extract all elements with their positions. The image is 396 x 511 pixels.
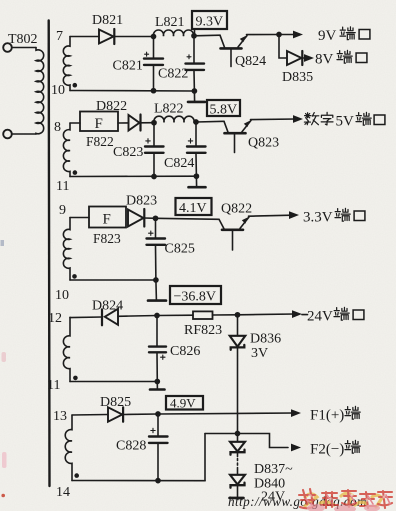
svg-text:T802: T802	[8, 32, 38, 47]
secondary winding W2	[63, 123, 70, 177]
voltage box 9.3V	[192, 11, 227, 33]
label 3.3V port	[303, 208, 365, 225]
wire	[70, 122, 80, 124]
wire	[12, 47, 36, 49]
capacitor C822	[186, 36, 205, 91]
fuse F822	[80, 112, 118, 133]
wire	[114, 36, 153, 38]
speck pink left edge	[2, 352, 7, 362]
svg-text:7: 7	[56, 29, 63, 44]
svg-text:F: F	[103, 212, 111, 228]
capacitor C824	[187, 122, 206, 176]
node C823 bottom	[152, 174, 156, 178]
svg-text:5.8V: 5.8V	[210, 103, 238, 118]
node C825 bottom	[154, 278, 158, 282]
wire 24V arrow	[238, 310, 308, 318]
secondary winding W3	[63, 218, 70, 281]
node J1b	[192, 34, 196, 38]
diode D822	[129, 115, 141, 131]
wire bottom rail S5	[72, 480, 205, 482]
fuse F823	[89, 207, 126, 228]
transistor Q823	[224, 120, 251, 152]
node C821 bottom	[151, 89, 155, 93]
node J5b	[235, 431, 239, 435]
primary terminal top	[3, 43, 12, 52]
ground G2	[189, 176, 206, 187]
capacitor C821	[144, 37, 163, 91]
wire bottom rail S2	[70, 175, 196, 177]
phase dot W1	[73, 83, 78, 88]
capacitor C826	[149, 316, 166, 382]
svg-text:12: 12	[48, 311, 62, 326]
transformer core	[48, 21, 51, 487]
node 9V	[277, 32, 281, 36]
dashed wire	[237, 459, 239, 468]
node C824 bottom	[194, 174, 198, 178]
svg-text:D837~: D837~	[254, 462, 293, 477]
svg-text:C822: C822	[158, 67, 188, 82]
svg-text:C823: C823	[113, 145, 143, 160]
wire	[118, 122, 129, 124]
primary winding	[36, 48, 44, 135]
zener D837	[230, 434, 245, 457]
transistor Q824	[220, 35, 247, 66]
label 9V port	[318, 27, 370, 44]
wire	[70, 36, 99, 38]
wire bottom rail S4	[70, 381, 157, 383]
node C822 bottom	[192, 89, 196, 93]
svg-text:Q822: Q822	[221, 202, 252, 217]
svg-text:10: 10	[51, 83, 65, 98]
secondary winding W1	[63, 37, 70, 91]
ground G3	[148, 280, 166, 301]
wire to D835	[279, 35, 287, 59]
wire F2 step	[238, 434, 289, 448]
diode D825	[108, 407, 123, 421]
svg-text:9V: 9V	[318, 28, 337, 44]
svg-text:C825: C825	[165, 242, 195, 257]
svg-text:4.9V: 4.9V	[170, 396, 196, 411]
wire	[70, 316, 102, 319]
voltage box 4.1V	[176, 198, 212, 216]
ground G5	[230, 497, 244, 500]
svg-text:9.3V: 9.3V	[196, 15, 224, 30]
inductor L821	[153, 30, 193, 36]
label F1(+) port	[310, 406, 360, 423]
ground G4	[150, 382, 165, 390]
wire F1 arrow	[158, 409, 301, 417]
wire riser	[204, 434, 206, 481]
speck blue-gray left edge	[1, 240, 5, 246]
secondary winding W4	[63, 317, 70, 381]
svg-text:3.3V: 3.3V	[303, 210, 333, 226]
phase dot W4	[73, 376, 78, 381]
node J2a	[152, 121, 156, 125]
svg-text:D824: D824	[92, 299, 123, 314]
svg-text:L822: L822	[154, 102, 184, 117]
svg-text:−36.8V: −36.8V	[174, 290, 217, 305]
svg-text:Q824: Q824	[235, 54, 266, 69]
zener D840	[230, 468, 245, 498]
wire 8V arrow	[302, 54, 314, 62]
svg-text:5V: 5V	[336, 114, 355, 130]
voltage box -36.8V	[170, 286, 221, 305]
wire 9V arrow	[279, 31, 303, 39]
wire to D837 node	[205, 433, 238, 435]
ground G1	[188, 91, 205, 102]
label F2(-) port	[310, 440, 360, 457]
node J4b	[235, 313, 239, 317]
svg-text:C824: C824	[164, 156, 194, 171]
wire bottom rail S3	[70, 279, 156, 281]
svg-text:3V: 3V	[251, 346, 268, 361]
speck pink left edge 2	[2, 452, 7, 468]
svg-text:D825: D825	[100, 395, 131, 410]
svg-text:F822: F822	[86, 134, 114, 149]
svg-text:4.1V: 4.1V	[179, 201, 207, 216]
wire	[144, 217, 155, 219]
node C826 bottom	[155, 379, 159, 383]
svg-text:8V: 8V	[315, 52, 334, 68]
wire	[118, 315, 157, 318]
svg-text:9: 9	[59, 203, 66, 218]
node C828 bottom	[156, 479, 160, 483]
wire	[70, 217, 89, 219]
wire	[196, 120, 224, 123]
wire 3.3V arrow	[249, 211, 300, 219]
primary terminal bottom	[3, 130, 12, 139]
node J5a	[156, 412, 160, 416]
svg-text:14: 14	[56, 485, 70, 500]
phase dot W2	[73, 170, 78, 175]
diode D821	[99, 29, 114, 44]
node J2b	[194, 120, 198, 124]
node J3a	[153, 216, 157, 220]
diode D835	[287, 51, 302, 65]
node J1a	[151, 34, 155, 38]
secondary winding W5	[65, 415, 72, 481]
svg-text:D836: D836	[250, 332, 281, 347]
svg-text:F2(−): F2(−)	[310, 442, 344, 458]
wire	[247, 34, 280, 36]
phase dot W3	[72, 274, 77, 279]
svg-text:24V: 24V	[307, 309, 333, 325]
wire	[72, 414, 108, 417]
wire	[156, 218, 220, 219]
F2 arrowhead	[291, 444, 301, 452]
wire	[141, 122, 155, 124]
transistor Q822	[219, 217, 249, 250]
wire bottom rail S1	[70, 90, 194, 93]
zener D836	[230, 315, 246, 434]
wire	[157, 314, 193, 316]
wire	[194, 34, 220, 37]
svg-text:C826: C826	[170, 344, 200, 359]
svg-text:D823: D823	[126, 194, 157, 209]
svg-text:C821: C821	[113, 59, 143, 74]
wire 5V arrow	[251, 115, 304, 123]
svg-text:8: 8	[54, 120, 61, 135]
capacitor C828	[149, 414, 168, 481]
svg-text:10: 10	[55, 288, 69, 303]
svg-text:D821: D821	[92, 13, 123, 28]
svg-text:RF823: RF823	[184, 323, 222, 338]
svg-text:D835: D835	[282, 70, 313, 85]
resistor RF823	[193, 311, 213, 319]
node J4a	[155, 313, 159, 317]
svg-text:13: 13	[53, 409, 67, 424]
label 8V port	[315, 50, 367, 67]
svg-text:11: 11	[47, 378, 60, 393]
svg-text:D822: D822	[96, 99, 127, 114]
phase dot W5	[74, 473, 79, 478]
capacitor C823	[145, 123, 164, 177]
watermark red seal	[299, 489, 392, 511]
svg-text:L821: L821	[155, 15, 185, 30]
label 24V port	[307, 307, 364, 324]
wire	[123, 413, 158, 416]
svg-text:C828: C828	[116, 439, 146, 454]
svg-text:11: 11	[56, 179, 69, 194]
diode D824	[102, 309, 118, 326]
diode D823	[128, 209, 144, 227]
svg-text:F1(+): F1(+)	[310, 408, 344, 424]
wire	[213, 314, 238, 316]
voltage box 4.9V	[166, 396, 203, 411]
speck red bottom-left	[1, 494, 5, 498]
capacitor C825	[147, 218, 166, 280]
wire	[12, 133, 36, 135]
inductor L822	[154, 116, 194, 122]
voltage box 5.8V	[207, 100, 240, 118]
svg-text:F: F	[95, 116, 103, 132]
label digital 5V port	[304, 112, 385, 129]
svg-text:F823: F823	[93, 231, 121, 246]
svg-text:Q823: Q823	[248, 136, 279, 151]
